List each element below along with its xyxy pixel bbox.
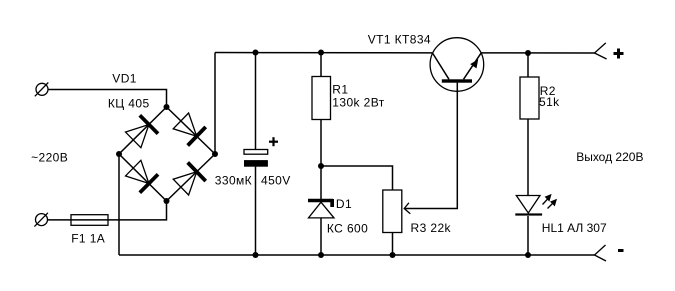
top rail wire left segment (215, 52, 432, 54)
wire bridge arm top-right (167, 107, 216, 154)
wire zener bottom (320, 218, 322, 255)
diode VD1.2 (173, 113, 206, 146)
wire zener top (320, 166, 322, 201)
wire input bottom through fuse to bridge (48, 201, 167, 220)
svg-text:КЦ 405: КЦ 405 (108, 97, 150, 111)
svg-text:450V: 450V (261, 173, 291, 187)
node bridge bottom (164, 198, 170, 204)
top rail wire right segment (481, 52, 594, 54)
R3 wiper arrowhead (404, 203, 410, 214)
output plus sign (614, 49, 624, 59)
svg-text:R1: R1 (332, 82, 348, 96)
svg-text:R3 22k: R3 22k (411, 221, 452, 235)
svg-text:~220В: ~220В (31, 151, 68, 165)
wire capacitor top (255, 53, 257, 150)
LED arrow 1 (543, 194, 552, 205)
node cap top rail (253, 50, 259, 56)
svg-text:51k: 51k (539, 95, 560, 109)
wire bridge arm bottom-right (167, 154, 216, 201)
node LED bottom rail (525, 252, 531, 258)
wire capacitor bottom (255, 167, 257, 255)
wire R1 bottom (320, 120, 322, 167)
wire bridge left node to bottom rail (118, 154, 120, 255)
bottom rail wire (119, 254, 595, 256)
svg-text:VT1 КТ834: VT1 КТ834 (368, 32, 431, 46)
node cap bottom rail (253, 252, 259, 258)
node R3 bottom rail (390, 252, 396, 258)
wire bridge right node to top rail (214, 53, 216, 155)
svg-text:HL1 АЛ 307: HL1 АЛ 307 (542, 221, 607, 235)
node zener bottom rail (318, 252, 324, 258)
wire R2 to LED (527, 119, 529, 196)
svg-text:130k 2Вт: 130k 2Вт (332, 95, 384, 109)
output minus sign (618, 249, 624, 252)
wire bridge arm left-bottom (119, 154, 167, 201)
fuse F1 (71, 215, 108, 226)
node R2 top rail (525, 50, 531, 56)
output minus fork (595, 245, 607, 261)
wire input top to bridge (49, 90, 167, 108)
svg-text:330мК: 330мК (215, 173, 252, 187)
wire R2 top (527, 53, 529, 77)
node bridge right (212, 151, 218, 157)
capacitor C1 positive plate (244, 150, 268, 155)
diode VD1.4 (173, 163, 206, 196)
svg-text:КС 600: КС 600 (327, 222, 368, 236)
capacitor plus sign (269, 137, 278, 146)
wire transistor base to R3 wiper (404, 83, 457, 209)
transistor VT1 (430, 38, 484, 92)
wire R1 top (320, 53, 322, 77)
zener diode D1 (308, 199, 334, 218)
node R1 top rail (318, 50, 324, 56)
svg-text:D1: D1 (336, 197, 352, 211)
potentiometer R3 (383, 190, 402, 233)
capacitor C1 negative plate (244, 160, 268, 167)
terminal input bottom (34, 213, 48, 227)
wire R1 to R3 top (321, 166, 393, 190)
output plus fork (595, 43, 607, 59)
LED HL1 (515, 196, 542, 216)
terminal input top (35, 83, 49, 97)
diode VD1.3 (126, 160, 159, 192)
diode VD1.1 (126, 115, 159, 147)
LED arrow 2 (548, 199, 558, 209)
resistor R2 (520, 77, 539, 119)
svg-text:VD1: VD1 (112, 72, 137, 86)
wire bridge arm left-top (119, 107, 167, 154)
svg-text:F1 1A: F1 1A (71, 232, 105, 246)
resistor R1 (312, 77, 331, 120)
svg-text:Выход 220В: Выход 220В (576, 150, 643, 164)
node bridge left (116, 151, 122, 157)
node R1 zener junction (318, 163, 324, 169)
wire R3 bottom (392, 233, 394, 256)
wire LED to bottom rail (527, 216, 529, 255)
node bridge top (164, 104, 170, 110)
